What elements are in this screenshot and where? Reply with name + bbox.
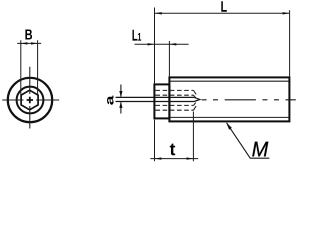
front view: horizontal centerline: [2, 99, 59, 101]
side view: thread root line top: [170, 80, 288, 82]
label a (rotated): [107, 96, 113, 105]
front view: center mark cross: [27, 97, 33, 103]
dimension L1: left arrowhead (outside, pointing right): [148, 43, 155, 45]
side view: thread root line bottom: [170, 116, 288, 118]
dimension t: right arrowhead: [187, 157, 194, 159]
dimension L: dimension line: [155, 12, 289, 14]
dimension a: lower leader line with up arrowhead: [120, 102, 122, 113]
dimension L: left extension line: [154, 8, 156, 85]
front view: vertical centerline: [29, 67, 31, 129]
dimension a: upper leader line with down arrowhead: [120, 85, 122, 97]
label L1: [132, 30, 137, 41]
label M (italic): [252, 142, 268, 157]
dimension t: right extension line: [192, 112, 194, 162]
front view: inner circle (head diameter): [17, 87, 44, 114]
dimension B: right arrowhead: [31, 42, 38, 44]
dimension t: left extension line: [154, 120, 156, 162]
side view: vent hole drill point cone: [194, 97, 200, 101]
dimension B: left arrowhead: [21, 42, 28, 44]
dimension L1: dimension line with outside tails: [135, 43, 189, 45]
side view: threaded body rectangle: [169, 77, 289, 121]
dimension L: right extension line: [289, 10, 291, 77]
side view: axis centerline: [202, 99, 296, 101]
thread callout M: arrowhead: [226, 122, 232, 129]
front view: outer circle (thread major diameter): [8, 78, 52, 122]
front view: hex socket hexagon: [21, 90, 38, 110]
dimension L1: right extension line: [168, 41, 170, 77]
side view: hex socket hidden lines (across corners): [155, 90, 193, 110]
label L: [221, 1, 226, 11]
label B: [25, 29, 32, 39]
dimension L: left arrowhead: [155, 12, 162, 14]
dimension B: extension lines: [21, 40, 38, 95]
thread callout M: leader line: [227, 123, 270, 158]
dimension L1: right arrowhead (outside, pointing left): [170, 43, 177, 45]
side view: vent hole lines (dimension a extension): [116, 97, 195, 101]
dimension t: dimension line with outside tails: [150, 158, 198, 160]
side view: screw head rectangle: [154, 84, 169, 118]
dimension t: left arrowhead: [155, 157, 162, 159]
side view: socket bottom cone hidden segments: [194, 90, 197, 110]
dimension B: dimension line: [17, 42, 41, 44]
side view: hex socket hidden lines (across flats): [155, 95, 193, 105]
dimension L: right arrowhead: [283, 12, 290, 14]
label t: [170, 144, 175, 156]
